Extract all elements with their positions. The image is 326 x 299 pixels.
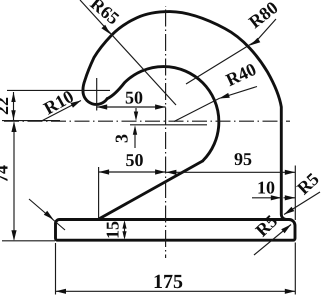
svg-text:50: 50 <box>125 88 143 108</box>
inner arc R40 <box>107 67 219 161</box>
arrow 175 left <box>56 289 67 294</box>
svg-text:50: 50 <box>126 150 144 170</box>
leader R40 <box>174 87 257 122</box>
arrow 10 at edge <box>271 195 282 200</box>
svg-text:95: 95 <box>234 149 252 169</box>
extension line base right upper <box>294 166 296 221</box>
dimension line 50 lower <box>99 171 166 173</box>
hook tip arc R10 <box>83 91 107 105</box>
svg-text:175: 175 <box>153 271 183 293</box>
svg-text:74: 74 <box>0 165 12 183</box>
dimension line 10 right part <box>284 197 296 199</box>
dimension line 15 <box>124 223 126 237</box>
arrow 3 lower <box>134 134 136 148</box>
dimension line 50 top <box>97 106 166 108</box>
arrow 50 top left <box>97 104 108 109</box>
extension line R10 center horizontal <box>7 89 110 91</box>
dimension line 22 <box>13 92 15 120</box>
svg-text:15: 15 <box>103 221 123 239</box>
extension line R10 center vertical <box>96 78 98 111</box>
arrow 175 right <box>285 289 296 294</box>
extension line 22 bottom <box>2 120 60 122</box>
svg-text:10: 10 <box>257 178 275 198</box>
extension line base right lower <box>294 243 296 295</box>
arrow 50 lower left <box>99 169 110 174</box>
horizontal center line <box>4 120 290 122</box>
arrow 74 down <box>11 230 16 241</box>
vertical center line <box>165 6 167 258</box>
arrow 74 up <box>11 122 16 133</box>
leader R80 <box>186 19 276 84</box>
leader R5 lower <box>254 225 291 256</box>
extension line 3 offset <box>130 124 207 126</box>
diagonal edge <box>99 161 203 219</box>
arrow 50 top right <box>155 104 166 109</box>
arrow 50 lower right <box>155 169 166 174</box>
base plate 175x15 <box>56 220 296 241</box>
extension line 50 left <box>98 167 100 219</box>
arrow 95 right <box>285 170 296 175</box>
leader R65 <box>80 0 176 105</box>
arrow 22 up <box>11 92 15 102</box>
dimension line 175 <box>56 290 296 292</box>
leader corner <box>29 199 65 230</box>
dimension line 74 <box>13 123 15 240</box>
arrow 95 left <box>166 170 177 175</box>
extension line base left lower <box>55 243 57 295</box>
arrow 10 at base end <box>285 195 296 200</box>
dimension line 95 <box>166 171 296 173</box>
outer profile R65+R80 arcs <box>83 12 287 220</box>
arrow 15 down <box>122 231 126 240</box>
svg-text:22: 22 <box>0 97 12 115</box>
svg-text:3: 3 <box>112 134 132 143</box>
arrow 3 upper <box>135 108 137 112</box>
arrow 22 down <box>11 110 15 120</box>
extension line 74 bottom <box>2 240 55 242</box>
dimension line 10 left part <box>252 197 281 199</box>
arrow 15 up <box>122 220 126 229</box>
leader R5 upper <box>284 192 320 215</box>
leader R10 <box>41 101 81 122</box>
